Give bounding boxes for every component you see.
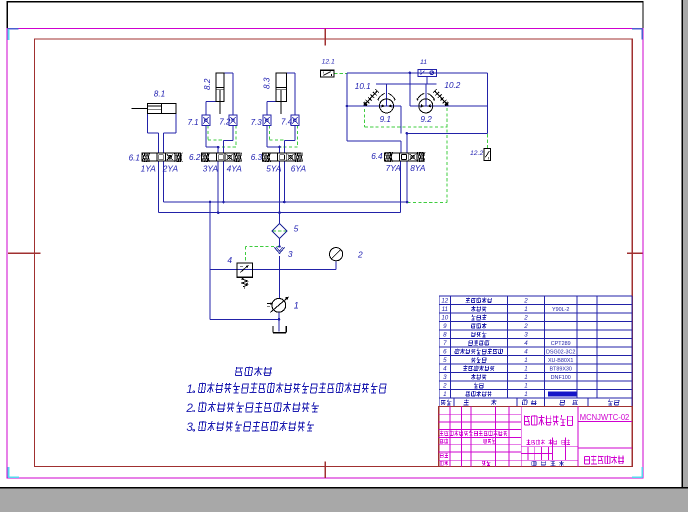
svg-text:12.2: 12.2 [470,150,483,157]
svg-text:3: 3 [524,332,528,339]
svg-text:3: 3 [443,374,447,381]
svg-text:9: 9 [443,323,447,330]
svg-text:8.3: 8.3 [262,77,271,89]
svg-text:5YA: 5YA [266,164,282,174]
svg-text:1: 1 [524,366,527,373]
svg-text:7.4: 7.4 [281,118,293,127]
svg-text:10.2: 10.2 [444,81,460,90]
svg-text:1: 1 [186,383,193,396]
svg-text:1: 1 [294,300,299,310]
svg-text:8.2: 8.2 [203,78,212,90]
svg-text:6YA: 6YA [291,164,307,174]
svg-text:6: 6 [443,349,447,356]
svg-text:10: 10 [441,315,448,322]
svg-text:1: 1 [524,306,527,313]
svg-text:1: 1 [443,391,446,398]
svg-text:CPT289: CPT289 [551,341,571,347]
svg-text:11: 11 [442,306,448,313]
svg-text:DSG02-3C2: DSG02-3C2 [546,349,575,355]
svg-text:12.1: 12.1 [322,59,335,66]
svg-text:MCNJWTC-02: MCNJWTC-02 [580,412,630,422]
svg-text:9.2: 9.2 [420,115,432,124]
svg-text:6.2: 6.2 [189,153,201,162]
svg-text:5: 5 [294,224,299,234]
svg-text:7.1: 7.1 [188,118,199,127]
svg-text:1: 1 [524,383,527,390]
svg-text:4: 4 [524,340,528,347]
svg-text:3: 3 [186,421,193,434]
svg-text:2: 2 [442,383,447,390]
svg-text:2: 2 [523,315,528,322]
svg-text:DNF100: DNF100 [551,375,571,381]
svg-text:4YA: 4YA [227,164,243,174]
svg-text:1: 1 [524,357,527,364]
svg-text:6.1: 6.1 [129,153,140,162]
svg-text:11: 11 [420,59,427,66]
svg-text:4: 4 [227,255,232,265]
svg-text:10.1: 10.1 [355,82,371,91]
svg-text:3YA: 3YA [203,164,219,174]
svg-text:Y90L-2: Y90L-2 [552,307,569,313]
svg-text:1: 1 [524,391,527,398]
svg-text:2YA: 2YA [162,164,179,174]
svg-text:2: 2 [523,298,528,305]
svg-text:8YA: 8YA [410,163,426,173]
svg-text:1YA: 1YA [141,164,157,174]
svg-text:7YA: 7YA [386,163,402,173]
svg-text:12: 12 [441,298,448,305]
svg-text:8: 8 [443,332,447,339]
svg-text:BT89X30: BT89X30 [549,366,571,372]
svg-text:6.4: 6.4 [371,152,383,161]
svg-text:4: 4 [524,349,528,356]
svg-text:2: 2 [357,249,363,259]
svg-text:3: 3 [288,249,293,259]
svg-text:2: 2 [523,323,528,330]
svg-text:2: 2 [185,402,193,415]
svg-text:5: 5 [443,357,447,364]
svg-text:7.2: 7.2 [219,118,231,127]
svg-text:7: 7 [443,340,447,347]
svg-text:6.3: 6.3 [251,153,263,162]
svg-text:8.1: 8.1 [154,90,165,99]
svg-text:9.1: 9.1 [380,115,391,124]
svg-text:1: 1 [524,374,527,381]
svg-text:XU-B80X1: XU-B80X1 [548,358,573,364]
svg-text:7.3: 7.3 [251,118,263,127]
svg-text:4: 4 [443,366,447,373]
